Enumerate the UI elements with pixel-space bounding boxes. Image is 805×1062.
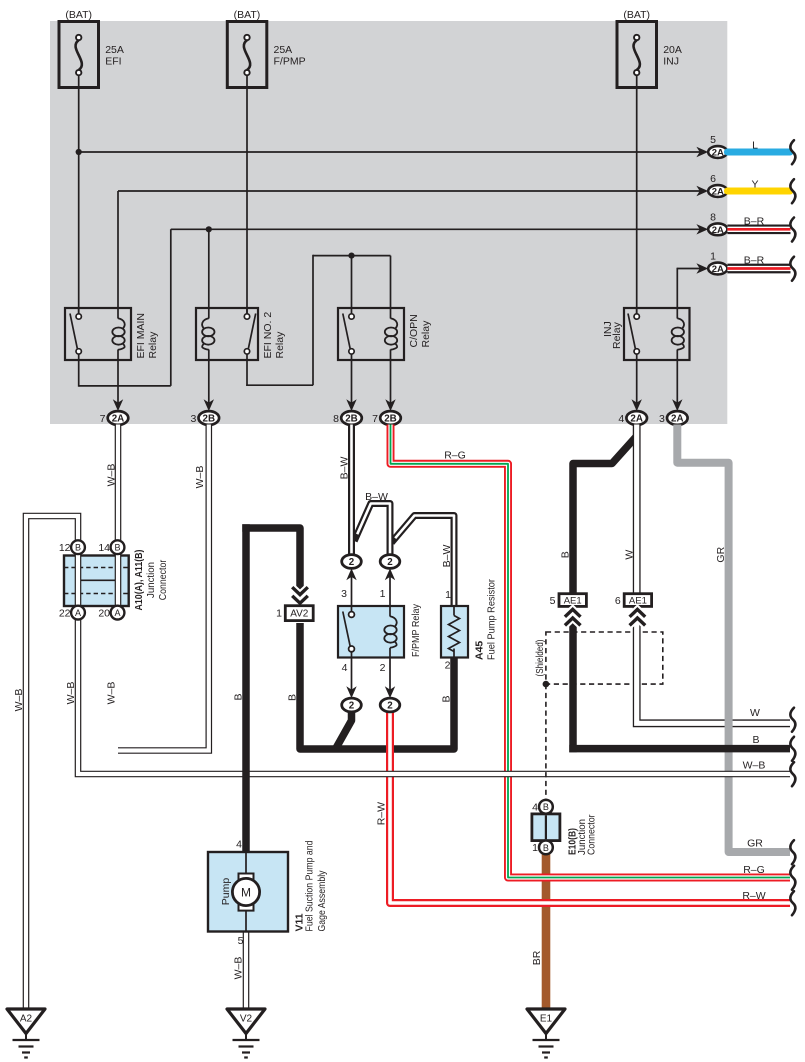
svg-text:3: 3 [190, 413, 196, 425]
svg-text:A45: A45 [474, 641, 486, 660]
svg-text:2B: 2B [384, 414, 397, 425]
svg-text:Y: Y [751, 179, 758, 191]
svg-text:2A: 2A [712, 225, 724, 236]
svg-text:1: 1 [380, 588, 386, 600]
svg-text:W–B: W–B [65, 682, 77, 705]
svg-text:BR: BR [531, 950, 543, 965]
svg-text:C/OPN: C/OPN [408, 314, 420, 347]
svg-text:A2: A2 [20, 1014, 33, 1025]
svg-text:B: B [441, 695, 453, 702]
svg-text:22: 22 [59, 608, 71, 620]
svg-text:A: A [114, 608, 120, 618]
svg-text:AV2: AV2 [290, 609, 309, 620]
svg-text:2A: 2A [630, 414, 643, 425]
svg-text:B: B [287, 694, 299, 701]
svg-text:GR: GR [715, 546, 727, 562]
svg-text:W: W [624, 550, 636, 560]
svg-text:2A: 2A [712, 148, 724, 159]
svg-text:Connector: Connector [586, 814, 598, 855]
svg-text:2: 2 [387, 557, 393, 568]
svg-text:R–G: R–G [444, 450, 466, 462]
svg-text:1: 1 [710, 251, 716, 263]
svg-text:25A: 25A [105, 44, 124, 56]
svg-text:(BAT): (BAT) [623, 9, 650, 21]
svg-text:1: 1 [532, 842, 538, 854]
svg-text:6: 6 [710, 173, 716, 185]
svg-text:R–W: R–W [376, 802, 388, 825]
svg-text:V2: V2 [240, 1014, 253, 1025]
svg-text:W–B: W–B [106, 464, 118, 487]
svg-text:Junction: Junction [145, 562, 157, 598]
svg-text:7: 7 [372, 413, 378, 425]
svg-text:2: 2 [445, 660, 451, 672]
svg-text:B–R: B–R [744, 216, 765, 228]
svg-text:2A: 2A [712, 187, 724, 198]
svg-text:L: L [752, 140, 758, 152]
svg-text:Fuel Suction Pump and: Fuel Suction Pump and [304, 840, 316, 931]
svg-text:B: B [75, 543, 81, 553]
svg-text:Relay: Relay [147, 331, 159, 359]
svg-text:GR: GR [747, 838, 763, 850]
svg-text:R–G: R–G [743, 864, 765, 876]
svg-text:4: 4 [532, 802, 538, 814]
svg-text:3: 3 [659, 413, 665, 425]
svg-text:W–B: W–B [106, 682, 118, 705]
svg-text:7: 7 [100, 413, 106, 425]
svg-text:5: 5 [710, 134, 716, 146]
svg-text:B: B [543, 843, 549, 853]
svg-text:B–W: B–W [441, 545, 453, 568]
svg-text:2B: 2B [203, 414, 216, 425]
svg-text:B–W: B–W [365, 491, 388, 503]
svg-text:12: 12 [59, 542, 71, 554]
svg-text:2: 2 [380, 662, 386, 674]
svg-text:5: 5 [550, 595, 556, 607]
svg-text:Connector: Connector [157, 559, 169, 600]
svg-text:(BAT): (BAT) [234, 9, 261, 21]
svg-text:2B: 2B [345, 414, 358, 425]
svg-text:B: B [560, 551, 572, 558]
svg-text:2: 2 [349, 701, 355, 712]
svg-text:(BAT): (BAT) [65, 9, 92, 21]
svg-text:2A: 2A [112, 414, 125, 425]
svg-text:E1: E1 [540, 1014, 553, 1025]
svg-text:W–B: W–B [233, 957, 245, 980]
svg-text:W–B: W–B [743, 760, 766, 772]
svg-text:20A: 20A [663, 44, 682, 56]
svg-text:6: 6 [615, 595, 621, 607]
svg-text:F/PMP: F/PMP [274, 56, 306, 68]
svg-text:F/PMP Relay: F/PMP Relay [410, 603, 422, 657]
svg-text:M: M [241, 885, 251, 899]
svg-text:EFI: EFI [105, 56, 121, 68]
svg-text:2A: 2A [712, 264, 724, 275]
svg-text:4: 4 [342, 662, 348, 674]
svg-text:Relay: Relay [274, 331, 286, 359]
svg-text:A10(A), A11(B): A10(A), A11(B) [133, 550, 145, 611]
svg-text:2A: 2A [671, 414, 684, 425]
svg-text:14: 14 [98, 542, 110, 554]
svg-text:25A: 25A [274, 44, 293, 56]
svg-text:W–B: W–B [13, 689, 25, 712]
svg-text:2: 2 [387, 701, 393, 712]
svg-text:Relay: Relay [611, 321, 623, 349]
svg-text:EFI MAIN: EFI MAIN [135, 313, 147, 359]
svg-text:W: W [750, 707, 760, 719]
svg-text:8: 8 [333, 413, 339, 425]
svg-text:5: 5 [238, 935, 244, 947]
svg-text:Relay: Relay [420, 320, 432, 348]
svg-text:B: B [233, 693, 245, 700]
svg-text:20: 20 [98, 608, 110, 620]
svg-text:1: 1 [445, 589, 451, 601]
svg-text:B: B [114, 543, 120, 553]
svg-text:B–W: B–W [339, 457, 351, 480]
svg-text:2: 2 [349, 557, 355, 568]
svg-text:R–W: R–W [742, 890, 765, 902]
svg-text:1: 1 [276, 608, 282, 620]
svg-text:Fuel Pump Resistor: Fuel Pump Resistor [486, 579, 498, 660]
svg-text:Gage Assembly: Gage Assembly [316, 870, 328, 932]
svg-text:B: B [752, 734, 759, 746]
svg-text:A: A [75, 608, 81, 618]
svg-text:B–R: B–R [744, 254, 765, 266]
svg-text:EFI NO. 2: EFI NO. 2 [262, 312, 274, 359]
svg-text:B: B [543, 802, 549, 812]
svg-text:4: 4 [236, 839, 242, 851]
svg-text:W–B: W–B [194, 466, 206, 489]
svg-text:4: 4 [618, 413, 624, 425]
svg-text:8: 8 [710, 211, 716, 223]
svg-text:Pump: Pump [220, 878, 232, 906]
svg-text:INJ: INJ [663, 56, 679, 68]
svg-text:3: 3 [341, 588, 347, 600]
svg-text:(Shielded): (Shielded) [534, 640, 546, 677]
